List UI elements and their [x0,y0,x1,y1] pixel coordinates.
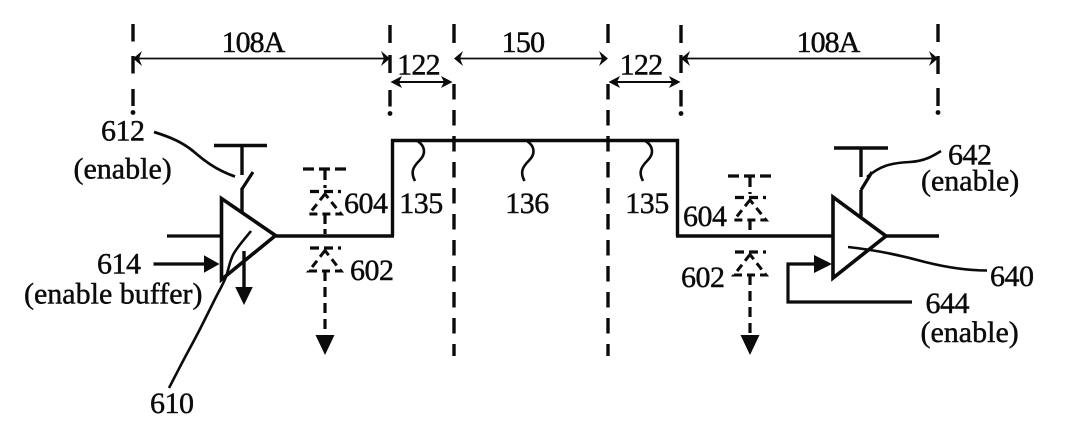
wire: right buffer output [886,234,939,237]
buffer U640 triangle [833,197,886,278]
svg-text:136: 136 [505,187,549,220]
ESD diode 604 right: cathode bar [735,196,766,199]
enable switch blade (left) [242,172,253,189]
buffer U610 triangle [222,199,276,280]
ESD diode 604 right: lower stub to wire [748,220,751,234]
svg-text:150: 150 [502,26,545,59]
svg-text:(enable buffer): (enable buffer) [24,278,203,311]
ESD diode 604 left: stub [323,170,326,188]
enable gate bar (left) [214,144,267,147]
boundary dashed line V5 (122/108A border) [679,25,682,107]
lead squiggle for 136 [522,141,533,181]
ESD diode 604 left: top terminal dashed bar [303,167,347,170]
ESD diode 602 right: stub down [748,275,751,336]
boundary dashed line V4 (150/122 border, long) [606,24,609,356]
ESD diode 604 left: cathode bar [310,190,341,193]
wire: top rail 136 [391,139,679,142]
wire: right buffer input segment 135 [676,234,833,237]
svg-text:108A: 108A [797,26,861,59]
dimension arrow 108A left [133,51,390,66]
svg-text:135: 135 [625,187,669,220]
wire: left buffer output segment 135 [276,234,394,237]
wire: left vertical step [391,139,394,236]
svg-text:604: 604 [344,187,388,220]
enable switch blade (right) [861,172,872,190]
ground arrow below 602 left [316,335,335,355]
lead line from switch to 642 label [867,151,941,177]
enable stem upper (right) [859,148,862,177]
svg-text:610: 610 [150,387,194,420]
svg-text:602: 602 [350,254,394,287]
ESD diode 604 left: lower stub to wire [323,214,326,234]
dimension arrow 150 [454,51,608,66]
svg-text:614: 614 [97,248,141,281]
lead line from buffer to 610 label [169,231,251,388]
svg-text:604: 604 [683,200,727,233]
svg-text:602: 602 [681,261,725,294]
lead squiggle for 135 left [413,141,424,181]
ESD diode 604 left: triangle [309,194,341,214]
ESD diode 602 right: triangle [734,255,766,276]
enable stem lower into buffer (left) [240,188,243,212]
lead line from 612 label to switch [154,132,235,177]
arrow 614 (enable buffer pointer) [154,262,207,265]
svg-text:(enable): (enable) [921,316,1019,349]
svg-text:640: 640 [990,260,1034,293]
boundary dashed line V2 (108A/122 border) [388,25,391,107]
wire: right vertical step [676,139,679,236]
dimension arrow 122 left [391,76,453,88]
svg-text:135: 135 [399,187,443,220]
lead line from buffer to 640 label [848,247,987,271]
wire: left buffer input [167,234,222,237]
dimension arrow 108A right [681,51,938,66]
ESD diode 604 right: triangle [734,200,766,220]
svg-text:(enable): (enable) [921,165,1019,198]
enable stem lower into buffer (right) [859,190,862,217]
svg-text:612: 612 [101,115,145,148]
svg-text:108A: 108A [222,26,286,59]
down arrow below buffer 610 [242,251,245,289]
enable gate bar (right) [834,146,888,149]
ESD diode 602 right: cathode bar [735,250,766,253]
svg-text:(enable): (enable) [74,153,172,186]
enable stem upper (left) [240,145,243,175]
feedback enable line 644 [788,264,912,302]
boundary dashed line V6 (right edge of 108A) [936,24,939,106]
lead squiggle for 135 right [641,141,652,181]
ground arrow below 602 right [741,335,760,355]
ESD diode 602 left: triangle [309,251,341,272]
svg-text:122: 122 [620,49,663,82]
boundary dashed line V1 (left edge of 108A) [131,24,134,106]
ESD diode 604 right: stub [748,177,751,194]
boundary dashed line V3 (122/150 border, long) [452,24,455,356]
ESD diode 602 left: stub down [323,271,326,336]
ESD diode 604 right: top terminal dashed bar [728,174,772,177]
dimension arrow 122 right [609,76,681,88]
ESD diode 602 left: cathode bar [310,246,341,249]
svg-text:122: 122 [397,49,440,82]
